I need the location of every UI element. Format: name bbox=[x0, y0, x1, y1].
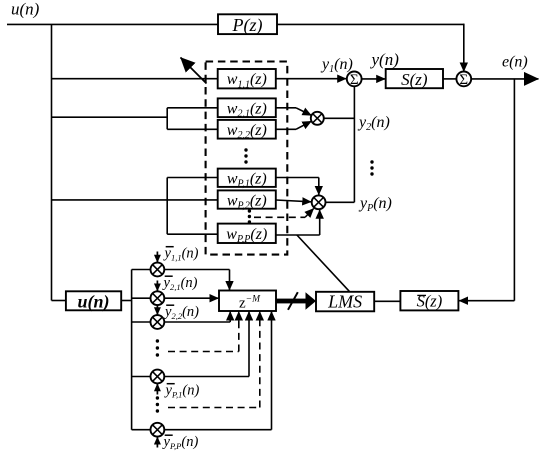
svg-text:P(z): P(z) bbox=[232, 15, 263, 36]
svg-text:wP,P(z): wP,P(z) bbox=[226, 226, 267, 245]
svg-text:y1(n): y1(n) bbox=[320, 56, 353, 75]
svg-text:wP,2(z): wP,2(z) bbox=[227, 192, 267, 211]
svg-text:Σ: Σ bbox=[350, 72, 359, 88]
svg-text:yP(n): yP(n) bbox=[358, 195, 392, 214]
svg-text:y(n): y(n) bbox=[370, 50, 400, 69]
svg-text:z−M: z−M bbox=[239, 295, 261, 312]
svg-text:yP,1(n): yP,1(n) bbox=[164, 383, 200, 400]
svg-text:S(z): S(z) bbox=[417, 292, 443, 311]
svg-text:y2,2(n): y2,2(n) bbox=[163, 304, 199, 321]
svg-text:wP,1(z): wP,1(z) bbox=[227, 171, 267, 190]
svg-text:w2,2(z): w2,2(z) bbox=[227, 122, 267, 141]
svg-text:w1,1(z): w1,1(z) bbox=[227, 71, 267, 90]
svg-text:u(n): u(n) bbox=[11, 0, 40, 19]
svg-text:S(z): S(z) bbox=[401, 70, 428, 89]
svg-text:LMS: LMS bbox=[327, 292, 362, 312]
svg-text:yP,P(n): yP,P(n) bbox=[162, 434, 199, 451]
svg-text:y2,1(n): y2,1(n) bbox=[162, 275, 198, 292]
svg-text:w2,1(z): w2,1(z) bbox=[227, 101, 267, 120]
svg-text:Σ: Σ bbox=[459, 72, 468, 88]
svg-text:y2(n): y2(n) bbox=[357, 114, 390, 133]
svg-text:e(n): e(n) bbox=[502, 53, 528, 70]
svg-text:u(n): u(n) bbox=[77, 292, 109, 313]
svg-text:y1,1(n): y1,1(n) bbox=[163, 246, 199, 263]
